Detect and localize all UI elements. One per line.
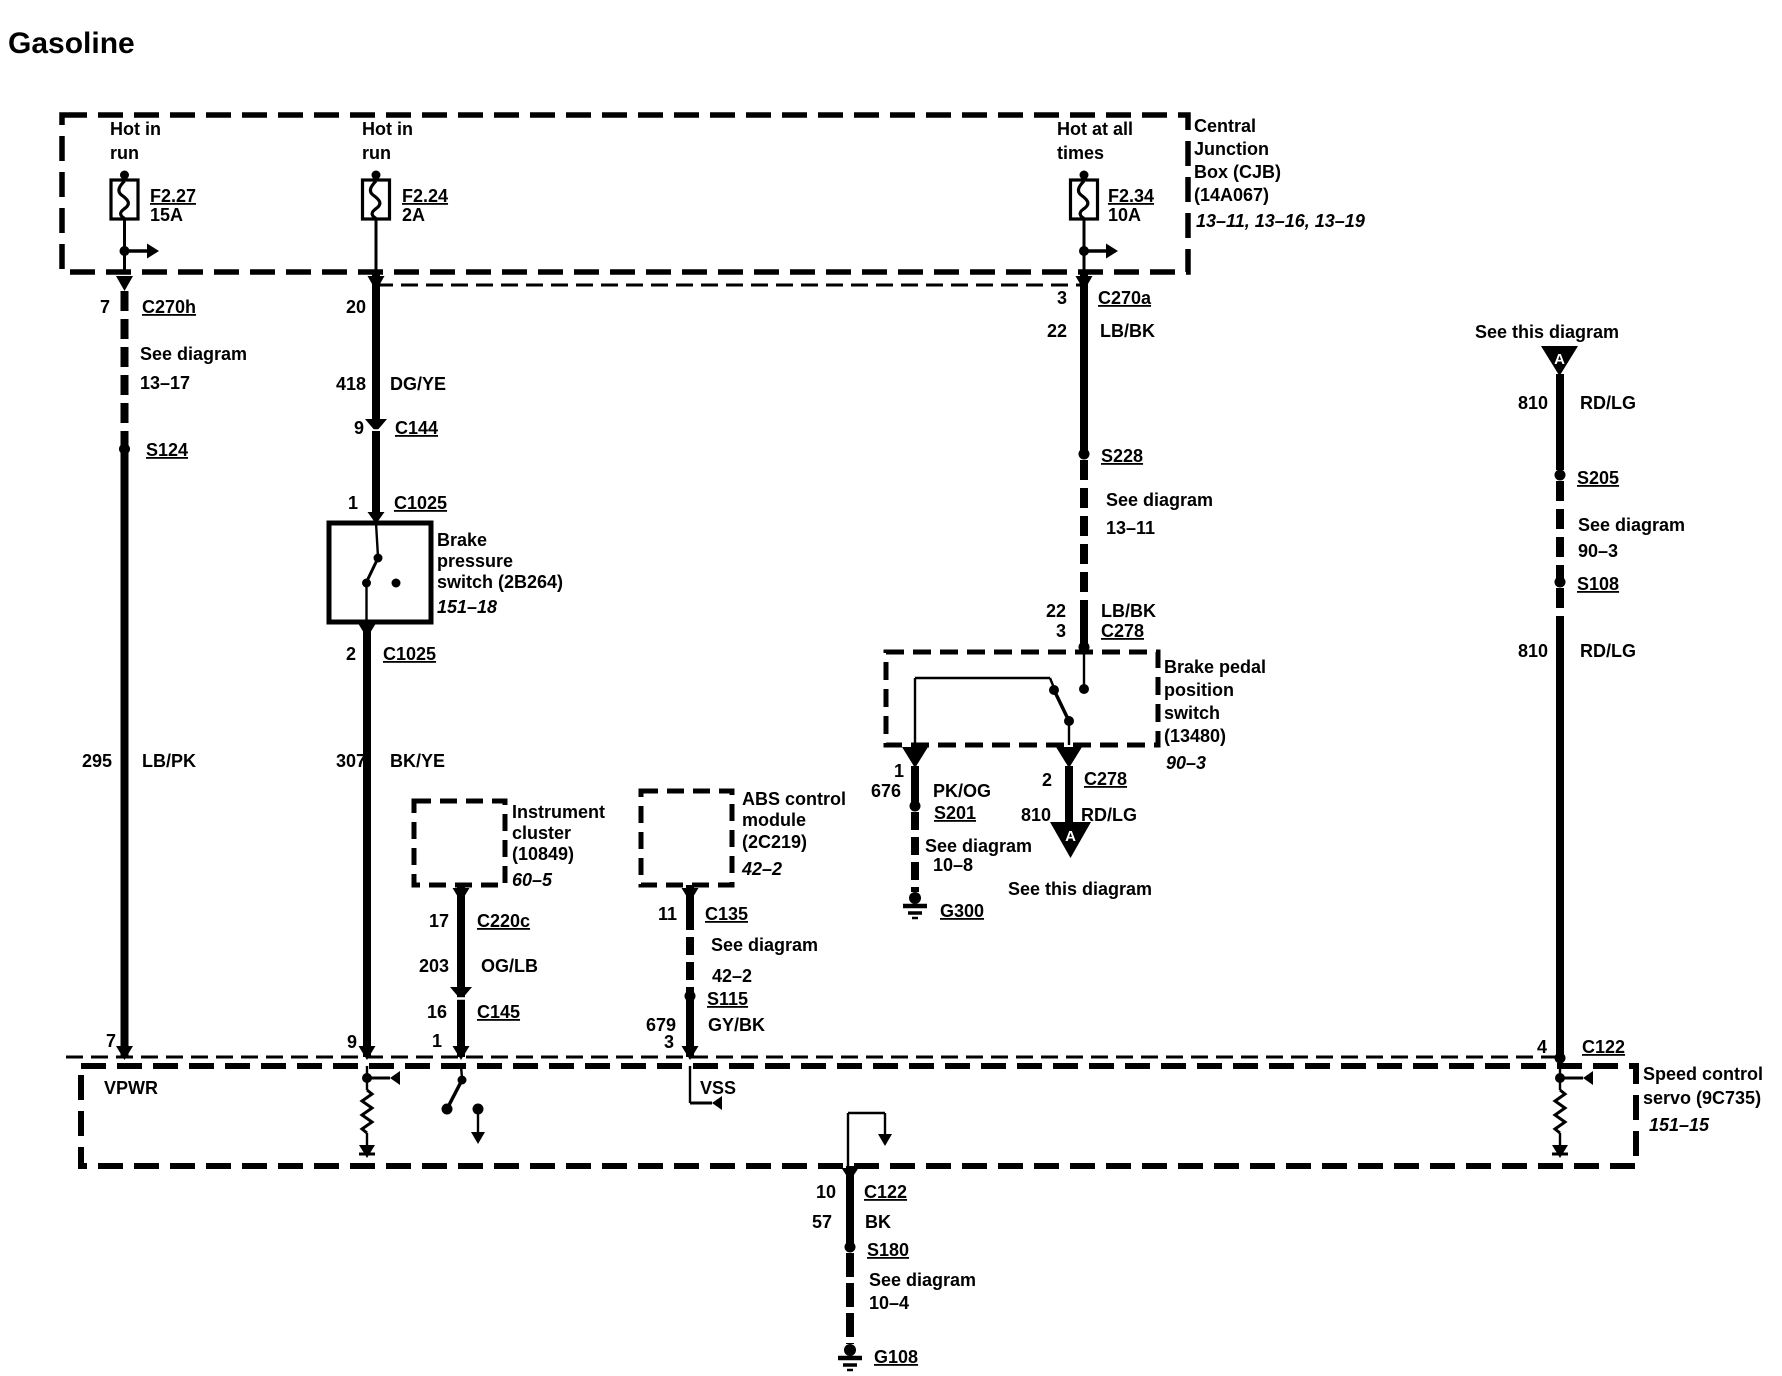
svg-text:Box (CJB): Box (CJB) [1194,162,1281,182]
wire 295 LB/PK dashed top segment [121,291,129,446]
fuse F2.24 [363,171,390,220]
svg-text:20: 20 [346,297,366,317]
svg-text:10–8: 10–8 [933,855,973,875]
svg-text:151–15: 151–15 [1649,1115,1710,1135]
label VSS [700,1078,736,1098]
svg-text:LB/BK: LB/BK [1101,601,1156,621]
label Instrument cluster (10849) 60-5 [512,802,605,890]
svg-text:GY/BK: GY/BK [708,1015,765,1035]
svg-text:OG/LB: OG/LB [481,956,538,976]
label 307 BK/YE [336,751,445,771]
servo center relay coil box [848,1113,892,1166]
svg-text:VSS: VSS [700,1078,736,1098]
svg-text:See this diagram: See this diagram [1008,879,1152,899]
svg-text:2: 2 [1042,770,1052,790]
label 20 [346,297,366,317]
svg-text:60–5: 60–5 [512,870,553,890]
label 9 C144 [354,418,438,438]
label 3 C278 [1056,621,1144,641]
svg-text:10A: 10A [1108,205,1141,225]
label 810 RD/LG right bottom [1518,641,1636,661]
svg-text:F2.27: F2.27 [150,186,196,206]
terminator arrow servo col2 [359,1145,375,1158]
label Speed control servo (9C735) 151-15 [1643,1064,1763,1135]
wire RD/LG dashed middle right [1556,481,1564,579]
svg-text:Hot in: Hot in [362,119,413,139]
svg-text:307: 307 [336,751,366,771]
svg-text:S108: S108 [1577,574,1619,594]
svg-text:Brake: Brake [437,530,487,550]
connector pin arrow pin1 below pedal switch [902,747,928,768]
svg-text:3: 3 [1056,621,1066,641]
svg-text:7: 7 [106,1031,116,1051]
svg-text:418: 418 [336,374,366,394]
splice S205 [1555,468,1620,488]
svg-text:13–17: 13–17 [140,373,190,393]
svg-text:295: 295 [82,751,112,771]
splice S115 [685,989,749,1009]
label See diagram 90-3 [1578,515,1685,561]
svg-text:1: 1 [894,761,904,781]
wire fuse F2.24 lead [375,219,378,274]
label 10 C122 [816,1182,907,1202]
label Brake pedal position switch (13480) 90-3 [1164,657,1266,773]
svg-text:G108: G108 [874,1347,918,1367]
svg-text:S205: S205 [1577,468,1619,488]
svg-text:810: 810 [1518,641,1548,661]
connector pin arrow below brake pressure switch [359,624,376,638]
svg-text:2: 2 [346,644,356,664]
label See diagram 13-11 [1106,490,1213,538]
svg-text:S201: S201 [934,803,976,823]
wire RD/LG dashed below S108 [1556,588,1564,634]
wire 203 OG/LB [457,885,465,1057]
svg-text:See diagram: See diagram [869,1270,976,1290]
svg-text:(13480): (13480) [1164,726,1226,746]
wire thin dashed connector line C122 bus [66,1056,1560,1059]
wire 679 GY/BK lower [686,996,694,1057]
node junction at brake pedal switch top [1079,642,1090,653]
label 3 C270a [1057,288,1152,308]
label See diagram 13-17 [140,344,247,393]
svg-text:C278: C278 [1101,621,1144,641]
label 295 LB/PK [82,751,196,771]
connector pin arrow col2 pin20 [368,276,385,291]
svg-text:1: 1 [432,1031,442,1051]
svg-text:C1025: C1025 [394,493,447,513]
svg-text:3: 3 [1057,288,1067,308]
servo col3 switch [442,1066,486,1144]
label See diagram 42-2 [711,935,818,986]
svg-text:VPWR: VPWR [104,1078,158,1098]
wire GY/BK dashed segment [686,885,694,992]
label 810 RD/LG [1021,805,1137,825]
label Brake pressure switch (2B264) 151-18 [437,530,563,617]
label See diagram 10-4 [869,1270,976,1313]
wire 810 RD/LG upper right [1556,374,1564,470]
label 57 BK [812,1212,891,1232]
svg-text:Hot in: Hot in [110,119,161,139]
svg-text:22: 22 [1046,601,1066,621]
servo col4 VSS elbow arrow [690,1066,722,1110]
label Central Junction Box (CJB) (14A067) [1194,116,1365,231]
wire fuse F2.34 lead [1083,219,1086,274]
svg-text:C144: C144 [395,418,438,438]
svg-text:C1025: C1025 [383,644,436,664]
svg-text:S180: S180 [867,1240,909,1260]
svg-text:3: 3 [664,1032,674,1052]
wire LB/BK dashed middle [1080,460,1088,602]
svg-text:C270h: C270h [142,297,196,317]
splice S108 [1555,574,1620,594]
svg-text:See diagram: See diagram [711,935,818,955]
brake pedal position switch internals [915,652,1089,745]
connector pin arrow col5 pin3 C270a [1076,276,1093,291]
svg-text:See diagram: See diagram [1578,515,1685,535]
svg-text:run: run [110,143,139,163]
wire fuse F2.27 lead [123,219,126,274]
label VPWR [104,1078,158,1098]
svg-text:90–3: 90–3 [1166,753,1206,773]
svg-text:4: 4 [1537,1037,1547,1057]
svg-text:C122: C122 [864,1182,907,1202]
resistor coil servo col6 [1555,1090,1565,1145]
svg-text:See diagram: See diagram [1106,490,1213,510]
connector pin arrow col3 servo entry [432,1031,470,1060]
svg-text:See diagram: See diagram [925,836,1032,856]
label 203 OG/LB [419,956,538,976]
svg-text:810: 810 [1021,805,1051,825]
Central Junction Box CJB dashed outline [62,115,1188,272]
svg-text:BK/YE: BK/YE [390,751,445,771]
svg-text:C145: C145 [477,1002,520,1022]
svg-text:cluster: cluster [512,823,571,843]
svg-text:57: 57 [812,1212,832,1232]
connector C145 inline marker [450,987,472,1000]
brake pressure switch 2B264 box [329,523,431,622]
svg-text:C122: C122 [1582,1037,1625,1057]
svg-text:151–18: 151–18 [437,597,497,617]
label 2 C1025 [346,644,436,664]
wire 418 DG/YE upper [372,274,380,423]
svg-text:(14A067): (14A067) [1194,185,1269,205]
servo col2 node and flow arrow [362,1066,400,1090]
label F2.27 15A [150,186,196,225]
svg-text:switch (2B264): switch (2B264) [437,572,563,592]
connector pin arrow below ABS module [682,888,699,902]
splice S124 [119,440,188,460]
svg-text:run: run [362,143,391,163]
wire 810 RD/LG right leg [1065,766,1073,822]
svg-text:22: 22 [1047,321,1067,341]
svg-text:C220c: C220c [477,911,530,931]
splice S228 [1079,446,1144,466]
wire 295 LB/PK solid segment [121,449,129,1057]
svg-text:BK: BK [865,1212,891,1232]
svg-text:pressure: pressure [437,551,513,571]
svg-text:DG/YE: DG/YE [390,374,446,394]
node junction below F2.34 with right arrow [1079,244,1118,259]
wire DG/YE between C144 and C1025 [372,431,380,513]
svg-text:676: 676 [871,781,901,801]
label F2.34 10A [1108,186,1154,225]
svg-text:times: times [1057,143,1104,163]
label 17 C220c [429,911,530,931]
ABS control module 2C219 dashed box [641,791,732,885]
svg-text:See diagram: See diagram [140,344,247,364]
connector pin arrow into brake pressure switch [368,512,385,524]
svg-text:S124: S124 [146,440,188,460]
svg-text:Gasoline: Gasoline [8,27,135,60]
svg-text:See this diagram: See this diagram [1475,322,1619,342]
svg-text:90–3: 90–3 [1578,541,1618,561]
svg-text:Brake pedal: Brake pedal [1164,657,1266,677]
svg-text:LB/PK: LB/PK [142,751,196,771]
label Hot at all times [1057,119,1133,163]
svg-text:Central: Central [1194,116,1256,136]
svg-text:10–4: 10–4 [869,1293,909,1313]
svg-text:42–2: 42–2 [741,859,782,879]
svg-text:2A: 2A [402,205,425,225]
label 810 RD/LG right top [1518,393,1636,413]
connector pin arrow col2 servo entry [347,1032,376,1060]
label Hot in run (left) [110,119,161,163]
label See this diagram (center) [1008,879,1152,899]
label 4 C122 [1537,1037,1625,1057]
svg-text:17: 17 [429,911,449,931]
svg-text:S115: S115 [707,989,748,1009]
svg-text:Junction: Junction [1194,139,1269,159]
wire thin dashed connector line C270 [376,284,1084,287]
label ABS control module (2C219) 42-2 [741,789,846,879]
label 7 C270h [100,297,196,317]
fuse F2.34 [1071,171,1098,220]
label See this diagram (right) [1475,322,1619,342]
label 418 DG/YE [336,374,446,394]
svg-text:1: 1 [348,493,358,513]
title Gasoline [8,27,135,60]
svg-text:A: A [1065,828,1076,845]
label 1 676 PK/OG [871,761,991,801]
label 1 C1025 [348,493,447,513]
svg-text:servo (9C735): servo (9C735) [1643,1088,1761,1108]
connector pin arrow C270h col1 [116,276,133,291]
label 22 LB/BK lower [1046,601,1156,621]
svg-text:(2C219): (2C219) [742,832,807,852]
connector pin arrow col4 servo entry [682,1046,699,1060]
svg-text:RD/LG: RD/LG [1580,641,1636,661]
svg-text:13–11, 13–16, 13–19: 13–11, 13–16, 13–19 [1196,211,1365,231]
off-page arrow A top right [1541,346,1578,376]
servo col6 node and flow arrow [1555,1066,1593,1090]
svg-text:Instrument: Instrument [512,802,605,822]
svg-text:S228: S228 [1101,446,1143,466]
svg-text:(10849): (10849) [512,844,574,864]
label 16 C145 [427,1002,520,1022]
node junction col6 at servo entry [1555,1053,1566,1064]
speed control servo 9C735 dashed box [81,1066,1636,1166]
svg-text:switch: switch [1164,703,1220,723]
wire 57 BK upper [846,1166,854,1247]
label See diagram 10-8 [925,836,1032,875]
wire PK/OG dashed to ground [911,812,919,892]
svg-text:C270a: C270a [1098,288,1152,308]
splice S180 [845,1240,910,1260]
svg-text:11: 11 [658,904,677,924]
fuse F2.27 [111,171,138,220]
resistor coil servo col2 [362,1090,372,1145]
node junction below F2.27 with right arrow [120,244,160,259]
label 11 C135 [658,904,748,924]
svg-text:10: 10 [816,1182,836,1202]
svg-text:position: position [1164,680,1234,700]
wire BK dashed to ground [846,1253,854,1344]
svg-text:F2.34: F2.34 [1108,186,1154,206]
svg-text:module: module [742,810,806,830]
label F2.24 2A [402,186,448,225]
svg-text:LB/BK: LB/BK [1100,321,1155,341]
svg-text:16: 16 [427,1002,447,1022]
svg-text:RD/LG: RD/LG [1580,393,1636,413]
off-page arrow A down [1050,822,1091,858]
svg-text:F2.24: F2.24 [402,186,448,206]
svg-text:ABS control: ABS control [742,789,846,809]
wire 307 BK/YE [363,622,371,1057]
svg-text:810: 810 [1518,393,1548,413]
connector C144 inline marker [365,419,387,432]
svg-text:7: 7 [100,297,110,317]
terminator arrow servo col6 [1552,1145,1568,1158]
wire 810 RD/LG long solid right [1556,634,1564,1058]
svg-text:PK/OG: PK/OG [933,781,991,801]
svg-text:Hot at all: Hot at all [1057,119,1133,139]
label Hot in run (second) [362,119,413,163]
svg-text:9: 9 [354,418,364,438]
svg-text:Speed control: Speed control [1643,1064,1763,1084]
wire 676 PK/OG [911,766,919,806]
label 2 C278 [1042,769,1127,790]
svg-text:203: 203 [419,956,449,976]
label 22 LB/BK [1047,321,1155,341]
svg-text:C135: C135 [705,904,748,924]
ground G108 [838,1344,918,1370]
wire LB/BK lower solid [1080,602,1088,652]
connector pin arrow below instrument cluster [453,888,470,902]
connector pin arrow col1 VPWR entry [106,1031,133,1060]
ground G300 [903,892,984,921]
label 679 GY/BK 3 [646,1015,765,1052]
svg-text:13–11: 13–11 [1106,518,1155,538]
brake pressure switch internal contacts [362,523,401,622]
connector pin arrow pin2 below pedal switch [1056,747,1082,768]
wire LB/BK upper solid [1080,274,1088,450]
svg-text:A: A [1554,351,1565,368]
svg-text:C278: C278 [1084,769,1127,789]
svg-text:42–2: 42–2 [712,966,752,986]
instrument cluster 10849 dashed box [414,801,505,885]
splice S201 [910,801,977,824]
svg-text:G300: G300 [940,901,984,921]
svg-text:9: 9 [347,1032,357,1052]
brake pedal position switch 13480 dashed box [886,652,1158,745]
connector pin arrow below servo C122 [842,1168,859,1181]
svg-text:15A: 15A [150,205,183,225]
